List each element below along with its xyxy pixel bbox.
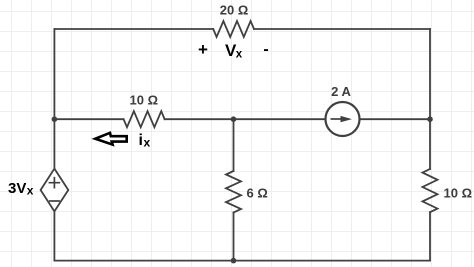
wire middle branch vertical upper <box>233 119 235 171</box>
plus sign inside diamond <box>49 177 61 189</box>
svg-text:+: + <box>198 40 208 59</box>
svg-text:3V: 3V <box>8 180 26 197</box>
svg-text:10 Ω: 10 Ω <box>130 92 159 107</box>
resistor R 10ohm middle <box>124 111 165 127</box>
svg-text:x: x <box>27 183 34 197</box>
minus sign inside diamond <box>49 200 60 202</box>
svg-text:10 Ω: 10 Ω <box>444 185 473 200</box>
wire middle-left horizontal <box>54 118 123 120</box>
junction dot node A (left) <box>52 116 58 122</box>
resistor R 6ohm <box>226 171 241 213</box>
wire right vertical upper <box>429 29 431 169</box>
current source I1 2A circle <box>326 102 360 136</box>
wire top-right horizontal <box>254 28 430 30</box>
resistor R 20ohm <box>213 21 254 37</box>
wire left vertical upper <box>53 29 55 169</box>
junction dot node B (middle) <box>231 116 237 122</box>
svg-text:-: - <box>263 41 268 58</box>
junction dot node D (bottom) <box>231 258 237 264</box>
wire bottom horizontal <box>54 260 430 262</box>
junction dot node C (right) <box>427 116 433 122</box>
svg-text:6 Ω: 6 Ω <box>247 185 268 200</box>
wire top-left horizontal <box>54 28 213 30</box>
svg-text:20 Ω: 20 Ω <box>220 3 249 18</box>
current source arrow <box>331 118 344 120</box>
wire current source to right <box>360 118 430 120</box>
svg-text:2 A: 2 A <box>331 84 351 99</box>
svg-text:x: x <box>144 136 151 150</box>
dependent source 3Vx diamond <box>41 169 69 212</box>
wire left vertical lower <box>53 211 55 260</box>
svg-text:x: x <box>236 49 243 61</box>
resistor R 10ohm right <box>423 169 438 212</box>
wire middle branch vertical lower <box>233 213 235 261</box>
wire middle horizontal to current source <box>165 118 325 120</box>
block arrow ix (current direction) <box>95 133 126 145</box>
wire right vertical lower <box>429 212 431 260</box>
svg-text:i: i <box>139 132 143 149</box>
